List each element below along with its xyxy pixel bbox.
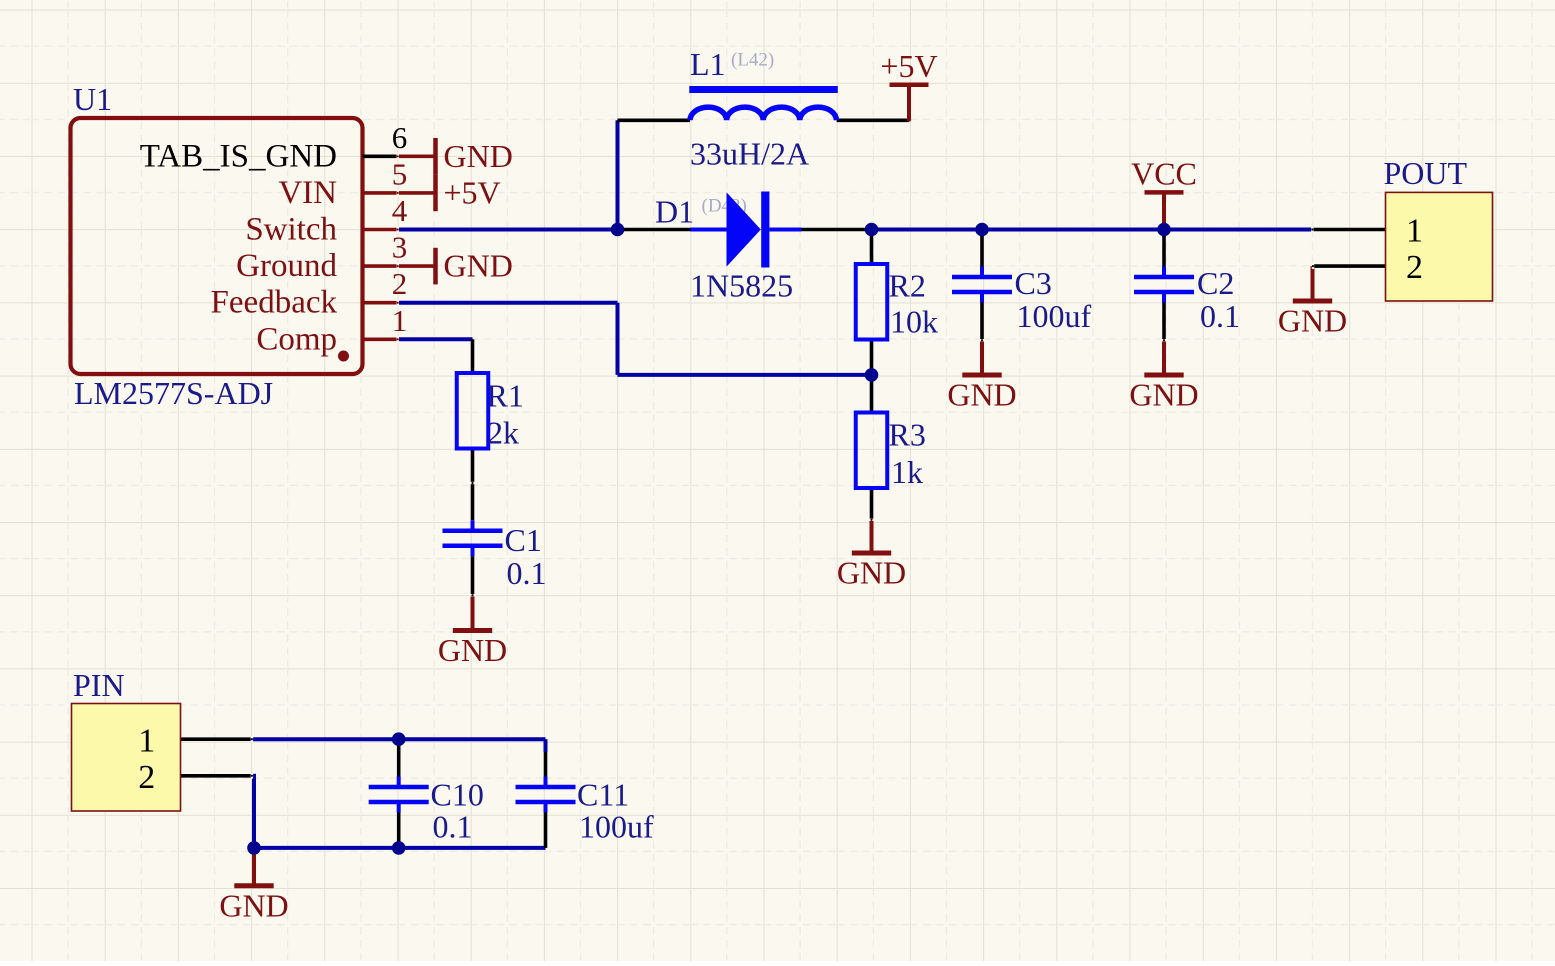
svg-text:LM2577S-ADJ: LM2577S-ADJ	[74, 375, 273, 411]
svg-text:0.1: 0.1	[507, 555, 547, 591]
svg-text:2: 2	[1406, 249, 1423, 286]
svg-text:2: 2	[138, 759, 155, 796]
svg-text:1: 1	[1406, 213, 1423, 250]
svg-text:100uf: 100uf	[579, 809, 654, 845]
svg-text:0.1: 0.1	[433, 809, 473, 845]
svg-text:GND: GND	[444, 248, 513, 284]
svg-text:C1: C1	[505, 522, 542, 558]
svg-text:5: 5	[392, 156, 408, 191]
svg-text:C2: C2	[1197, 265, 1234, 301]
svg-text:PIN: PIN	[73, 667, 125, 703]
svg-text:1: 1	[392, 303, 408, 338]
svg-text:U1: U1	[73, 81, 112, 117]
svg-text:2: 2	[392, 266, 408, 301]
svg-text:GND: GND	[947, 377, 1016, 413]
svg-text:1: 1	[138, 722, 155, 759]
svg-text:4: 4	[392, 193, 408, 228]
svg-text:100uf: 100uf	[1017, 298, 1092, 334]
svg-text:R1: R1	[487, 378, 524, 414]
svg-text:TAB_IS_GND: TAB_IS_GND	[140, 138, 337, 174]
svg-text:GND: GND	[1278, 303, 1347, 339]
svg-text:VCC: VCC	[1131, 155, 1197, 191]
svg-text:Switch: Switch	[245, 212, 337, 248]
svg-text:POUT: POUT	[1384, 155, 1468, 191]
svg-text:GND: GND	[444, 138, 513, 174]
svg-text:+5V: +5V	[880, 48, 937, 84]
svg-text:L1: L1	[690, 46, 726, 82]
svg-text:R3: R3	[889, 417, 926, 453]
svg-text:+5V: +5V	[444, 174, 501, 210]
svg-text:GND: GND	[1129, 377, 1198, 413]
svg-text:R2: R2	[889, 268, 926, 304]
svg-text:GND: GND	[837, 555, 906, 591]
svg-text:C11: C11	[577, 777, 629, 813]
svg-text:VIN: VIN	[278, 175, 337, 211]
svg-text:GND: GND	[219, 887, 288, 923]
svg-text:2k: 2k	[487, 415, 519, 451]
svg-text:C10: C10	[431, 777, 484, 813]
svg-text:1k: 1k	[891, 454, 923, 490]
svg-text:(L42): (L42)	[731, 50, 774, 71]
svg-text:GND: GND	[438, 632, 507, 668]
svg-text:Feedback: Feedback	[211, 285, 338, 321]
svg-text:D1: D1	[655, 194, 694, 230]
svg-text:3: 3	[392, 230, 408, 265]
svg-text:6: 6	[392, 120, 408, 155]
svg-text:C3: C3	[1015, 265, 1052, 301]
svg-text:33uH/2A: 33uH/2A	[690, 136, 809, 172]
svg-text:Comp: Comp	[256, 321, 337, 357]
svg-text:0.1: 0.1	[1200, 298, 1240, 334]
svg-text:Ground: Ground	[236, 248, 337, 284]
svg-text:10k: 10k	[890, 304, 938, 340]
svg-text:1N5825: 1N5825	[690, 268, 793, 304]
